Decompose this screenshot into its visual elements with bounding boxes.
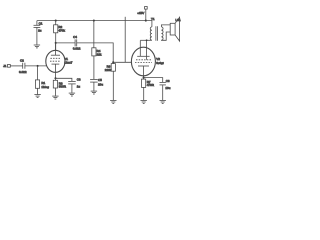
wire to V1 grid	[25, 65, 47, 67]
svg-text:1Meg: 1Meg	[41, 85, 49, 89]
resistor R4	[92, 21, 102, 80]
svg-text:C6: C6	[166, 79, 170, 83]
svg-text:1u: 1u	[77, 85, 81, 89]
svg-text:10u: 10u	[98, 83, 103, 87]
resistor R6	[105, 62, 116, 100]
wire cathode to C3	[56, 78, 72, 81]
svg-text:1u: 1u	[38, 29, 42, 33]
triode V1	[46, 43, 73, 78]
resistor R7	[142, 78, 155, 101]
capacitor C3	[68, 77, 81, 93]
capacitor C2	[19, 59, 27, 74]
svg-text:10u: 10u	[165, 86, 170, 90]
svg-text:470k: 470k	[58, 29, 65, 33]
svg-text:220k: 220k	[105, 68, 112, 72]
svg-text:T1: T1	[151, 17, 155, 21]
ground	[69, 93, 75, 96]
node input	[37, 65, 39, 67]
wire feedback	[124, 17, 126, 63]
wire anode to C4	[56, 42, 75, 44]
ground	[141, 101, 147, 104]
svg-text:C1: C1	[39, 21, 43, 25]
speaker LS1	[161, 17, 181, 41]
resistor R2	[54, 21, 66, 51]
svg-text:C5: C5	[98, 78, 102, 82]
ground	[160, 101, 166, 104]
capacitor C5	[90, 78, 103, 91]
ground	[34, 45, 40, 48]
wire primary to V2 anode	[140, 39, 152, 41]
wire C4 to V2 grid	[77, 43, 132, 62]
capacitor C6	[160, 79, 171, 100]
ground	[91, 91, 97, 94]
resistor R1	[35, 66, 49, 95]
svg-text:12ax7: 12ax7	[64, 60, 73, 64]
svg-text:C2: C2	[20, 59, 24, 63]
node V2 cathode	[143, 77, 145, 79]
ground	[52, 96, 58, 99]
svg-text:560R: 560R	[59, 85, 67, 89]
node V1 anode	[55, 42, 57, 44]
node rail-R2	[55, 20, 57, 22]
node screen tap	[146, 39, 148, 41]
node V2 grid	[112, 61, 114, 63]
capacitor C4	[73, 35, 81, 51]
ground	[34, 95, 40, 98]
transformer T1	[146, 17, 163, 41]
node rail-B+	[145, 20, 147, 22]
svg-text:470R: 470R	[147, 83, 155, 87]
ground	[110, 101, 116, 104]
wire B+ rail	[37, 20, 146, 22]
svg-text:C3: C3	[77, 77, 81, 81]
svg-text:J1: J1	[3, 64, 6, 68]
svg-text:6v6gt: 6v6gt	[156, 61, 164, 65]
svg-text:0.022: 0.022	[19, 70, 27, 74]
svg-text:C4: C4	[73, 35, 77, 39]
capacitor C1	[34, 21, 43, 45]
node rail-R4	[93, 20, 95, 22]
pentode V2	[131, 41, 163, 78]
power +15V	[137, 7, 147, 21]
wire input	[10, 65, 22, 67]
svg-text:22k: 22k	[97, 53, 102, 57]
svg-text:+15V: +15V	[137, 11, 144, 15]
wire cathode to C6	[144, 78, 163, 83]
node V1 cathode	[54, 77, 56, 79]
terminal J1	[3, 64, 10, 68]
svg-text:LS1: LS1	[175, 18, 181, 22]
resistor R3	[53, 78, 66, 96]
svg-text:0.022: 0.022	[73, 47, 81, 51]
